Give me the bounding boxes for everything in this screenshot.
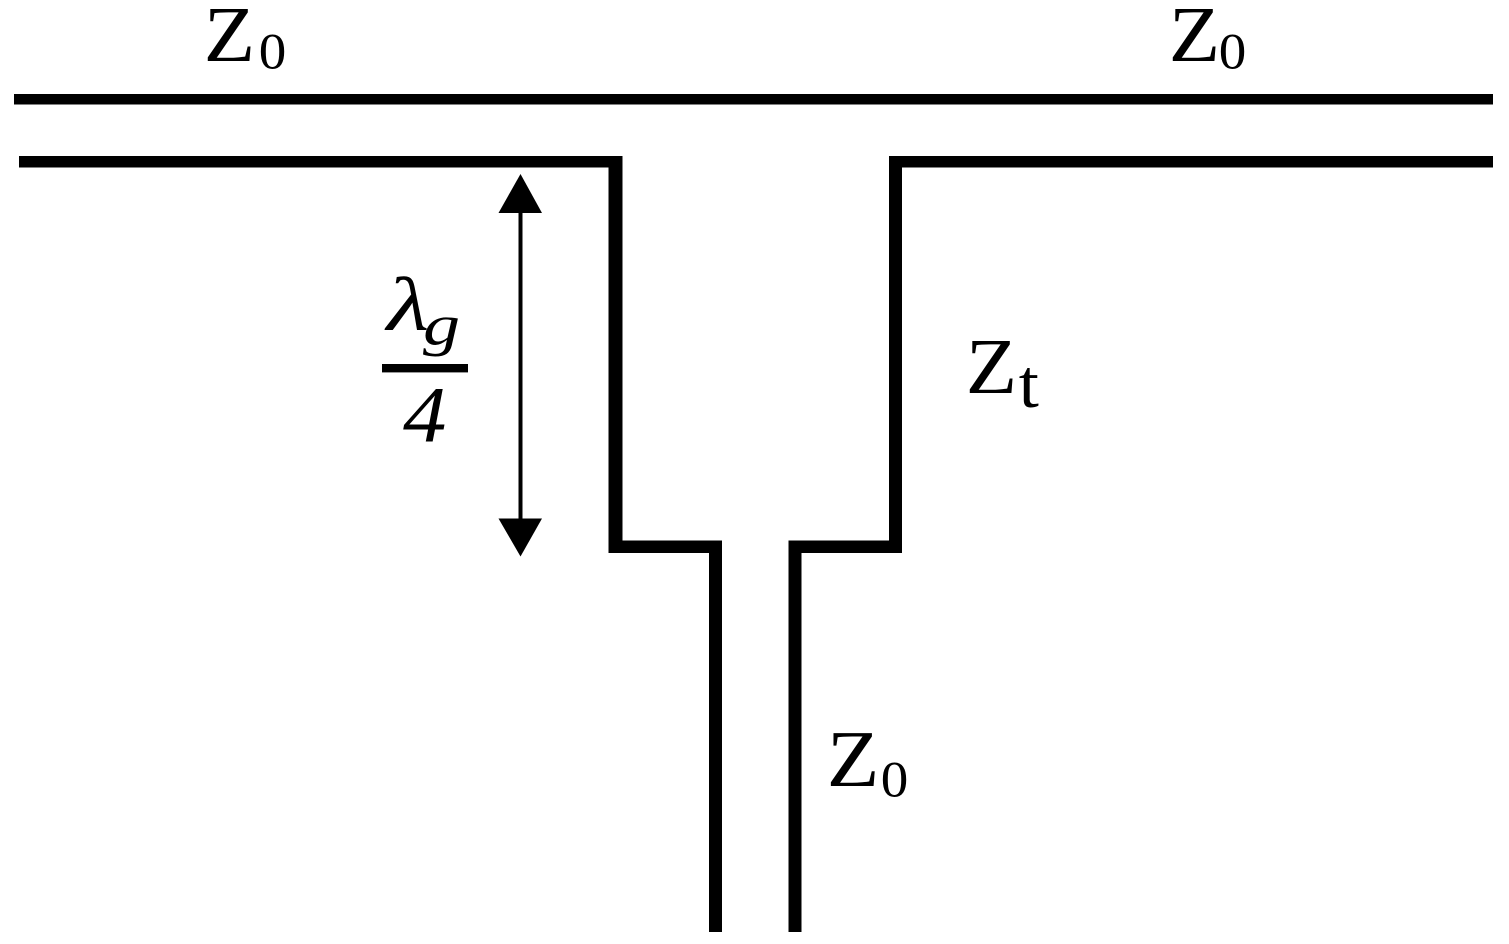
wire: left edge of quarter-wave transformer section Zt <box>609 156 623 553</box>
svg-text:0: 0 <box>259 24 287 80</box>
svg-text:Z: Z <box>966 322 1017 410</box>
wire: left step between transformer and stub <box>609 541 723 554</box>
svg-text:0: 0 <box>1219 24 1247 80</box>
wire: right step between transformer and stub <box>789 541 903 554</box>
label Z0 on bottom stub <box>827 715 909 808</box>
label Z0 top-left <box>204 0 287 80</box>
svg-text:Z: Z <box>204 0 255 78</box>
svg-text:t: t <box>1019 347 1039 423</box>
wire: lower microstrip edge, right segment <box>889 156 1493 168</box>
svg-text:0: 0 <box>881 752 909 808</box>
label Zt transformer impedance <box>966 322 1040 422</box>
svg-text:Z: Z <box>1169 0 1220 78</box>
wire: left edge of lower Z0 stub line <box>709 541 722 933</box>
wire: lower microstrip edge, left segment <box>19 156 623 168</box>
svg-text:g: g <box>423 294 460 357</box>
wire: top microstrip edge of main Z0 line <box>14 94 1493 105</box>
label lambda_g over 4 fraction <box>382 262 468 458</box>
svg-text:Z: Z <box>827 715 880 803</box>
svg-text:4: 4 <box>403 371 446 459</box>
dimension arrow for lambda_g/4 length <box>499 174 543 557</box>
wire: right edge of quarter-wave transformer section Zt <box>889 156 902 553</box>
label Z0 top-right <box>1169 0 1247 80</box>
wire: right edge of lower Z0 stub line <box>789 541 802 933</box>
